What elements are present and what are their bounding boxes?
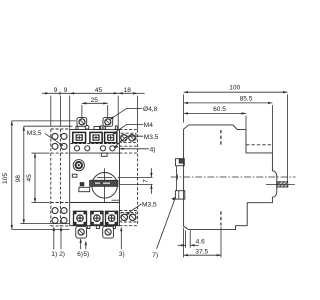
side view: DIN rail clamp bottom bbox=[175, 191, 184, 199]
bottom terminal 6/T3 bbox=[106, 211, 118, 225]
front view: bottom terminal block top line bbox=[70, 202, 120, 204]
knob handle bar (filled) bbox=[90, 180, 118, 186]
side view dim 60.5 line + extension bbox=[184, 112, 246, 114]
leader O4,8 bbox=[110, 109, 142, 120]
side view: shaft axis line bbox=[266, 183, 295, 185]
left aux terminal screws top group bbox=[52, 133, 67, 149]
dim 60.5 arrows bbox=[184, 112, 188, 114]
side view: hidden dashed edge upper front bbox=[246, 144, 272, 146]
main terminal 3/L2 (top row) bbox=[90, 132, 102, 142]
leader 4) bbox=[120, 148, 149, 150]
svg-text:3): 3) bbox=[119, 251, 125, 258]
svg-text:9: 9 bbox=[64, 87, 68, 94]
bottom fixing clamp right bbox=[103, 226, 114, 238]
side view dim 85.5 line + extension bbox=[184, 102, 273, 104]
dim 9-9-45-18 arrows bbox=[45, 92, 49, 94]
svg-text:4): 4) bbox=[150, 146, 156, 153]
main terminal 5/L3 (top row) bbox=[105, 132, 117, 142]
svg-text:M3,5: M3,5 bbox=[27, 130, 42, 137]
dim 7 arrows bbox=[150, 173, 152, 177]
dim 98 arrows bbox=[23, 126, 25, 130]
side view dim 4.6 lines + extensions bbox=[178, 244, 186, 246]
svg-text:9: 9 bbox=[54, 87, 58, 94]
svg-text:37.5: 37.5 bbox=[195, 248, 208, 255]
svg-text:45: 45 bbox=[95, 87, 103, 94]
dim 45 vertical line + extensions bbox=[34, 153, 36, 202]
leader 2) bbox=[60, 228, 62, 250]
svg-text:M3,5: M3,5 bbox=[144, 134, 159, 141]
svg-text:85.5: 85.5 bbox=[240, 96, 253, 103]
right side-mount aux block (dashed outline) bbox=[120, 130, 138, 226]
side view: upper knockout dashed mark bbox=[220, 130, 222, 146]
small tab under terminal block line bbox=[101, 153, 107, 156]
bottom terminal 2/T1 bbox=[74, 211, 87, 225]
bottom terminal 4/T2 bbox=[91, 211, 103, 225]
svg-text:1): 1) bbox=[51, 251, 57, 258]
right aux screws bottom bbox=[121, 214, 136, 220]
test sockets row (4 small circles) bbox=[74, 146, 115, 151]
svg-text:25: 25 bbox=[91, 97, 99, 104]
left side-mount aux block (dashed outline) bbox=[51, 129, 70, 226]
leader 1) bbox=[53, 228, 55, 250]
leader M4 bbox=[113, 125, 143, 134]
knob vertical centerline bbox=[104, 168, 106, 202]
svg-text:7): 7) bbox=[152, 252, 158, 259]
side view: body profile outline bbox=[184, 125, 277, 229]
rotary knob circle bbox=[92, 173, 118, 199]
leader arrowheads bbox=[53, 116, 176, 245]
svg-text:18: 18 bbox=[124, 87, 132, 94]
dim 9-9-45-18 extension lines bbox=[50, 96, 52, 127]
dim 7 (knob handle) extensions + arrows bbox=[118, 176, 153, 178]
dim 9-9 ticks bbox=[59, 92, 62, 95]
svg-text:60.5: 60.5 bbox=[213, 106, 226, 113]
side view dim 100 line + extensions bbox=[184, 91, 288, 93]
knob cross tick horizontal bbox=[97, 176, 112, 178]
dim 37.5 arrows bbox=[184, 254, 188, 256]
dim 4.6 arrows (outside) bbox=[181, 244, 185, 246]
svg-text:2): 2) bbox=[59, 251, 65, 258]
leader M3,5 top right bbox=[114, 136, 143, 147]
leader M3,5 bottom right bbox=[126, 204, 142, 214]
bottom fixing clamp left bbox=[76, 226, 87, 238]
dim 45 arrows bbox=[34, 153, 36, 157]
small filled square left of knob bbox=[80, 183, 84, 186]
front view: hidden dashed line under top terminals bbox=[71, 143, 119, 145]
svg-text:45: 45 bbox=[26, 174, 33, 182]
side view: lower knockout dashed mark bbox=[220, 211, 222, 225]
svg-text:Ø4,8: Ø4,8 bbox=[143, 106, 158, 113]
dim 25 arrows bbox=[82, 102, 86, 104]
dim 98 vertical line + extensions bbox=[23, 126, 25, 223]
svg-text:7: 7 bbox=[142, 179, 149, 183]
test button (concentric circles) bbox=[73, 160, 84, 171]
svg-text:M3,5: M3,5 bbox=[142, 202, 157, 209]
leader 5) bbox=[85, 242, 87, 250]
dim 105 arrows bbox=[11, 121, 13, 125]
small outline rect left of knob bbox=[79, 187, 90, 191]
leader 7) bbox=[157, 199, 175, 249]
right aux screws top bbox=[121, 135, 135, 141]
small tab between bottom clamps bbox=[87, 226, 90, 229]
dim 85.5 arrows bbox=[184, 102, 188, 104]
dim 25 line + extensions bbox=[82, 102, 108, 104]
front view: main body outline bbox=[70, 130, 120, 226]
arrowheads bbox=[11, 91, 288, 256]
main terminal 1/L1 (top row) bbox=[73, 132, 86, 142]
short line right of knob bbox=[112, 199, 120, 201]
dim 100 arrows bbox=[184, 91, 188, 93]
svg-text:M4: M4 bbox=[144, 122, 153, 129]
side view: rail groove line bbox=[175, 166, 177, 190]
front view: terminal block bottom line bbox=[70, 152, 120, 154]
left aux terminal screws bottom group bbox=[52, 208, 67, 224]
svg-text:4.6: 4.6 bbox=[196, 238, 205, 245]
svg-text:105: 105 bbox=[2, 173, 9, 184]
side view dim 37.5 line + extensions bbox=[184, 254, 221, 256]
side view: knob shaft (hatched) bbox=[277, 182, 289, 187]
svg-text:5): 5) bbox=[83, 251, 89, 258]
svg-text:98: 98 bbox=[15, 175, 22, 183]
top fixing clamp right (pad + screw) bbox=[94, 118, 117, 130]
leader M3,5 left bbox=[45, 134, 63, 146]
svg-text:100: 100 bbox=[229, 85, 240, 92]
svg-text:6): 6) bbox=[77, 251, 83, 258]
side view: horizontal centerline (dash-dot) bbox=[171, 176, 296, 178]
top fixing clamp left (pad + screw) bbox=[76, 118, 89, 130]
side view: DIN rail clamp top bbox=[175, 159, 184, 166]
leader 6) bbox=[80, 239, 82, 249]
dim 9-9-45-18 line bbox=[42, 92, 50, 94]
switch position indicator small rect bbox=[72, 174, 77, 177]
leader 3) bbox=[120, 228, 122, 249]
dim 105 vertical line + extensions bbox=[11, 121, 13, 229]
